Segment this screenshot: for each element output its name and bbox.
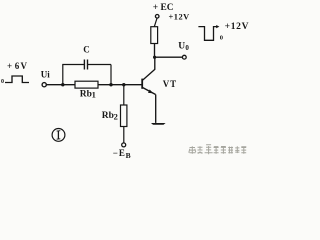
terminal U0 <box>182 55 186 59</box>
capacitor C plates <box>83 60 85 70</box>
wire right vertical of parallel block <box>110 65 112 85</box>
wire Rb2 to terminal <box>123 127 125 144</box>
svg-text:+: + <box>7 61 12 71</box>
svg-text:0: 0 <box>185 44 189 52</box>
svg-text:0: 0 <box>220 35 223 42</box>
wire EC to Rc <box>154 18 157 27</box>
svg-text:VT: VT <box>163 79 177 89</box>
figure number circle 1 <box>52 129 65 142</box>
svg-text:C: C <box>83 45 90 55</box>
terminal +EC <box>155 14 159 18</box>
input pulse waveform <box>5 76 29 83</box>
junction collector node <box>153 56 156 59</box>
junction right of parallel block <box>109 83 112 86</box>
svg-text:Rb: Rb <box>80 89 92 99</box>
wire emitter vertical <box>155 95 157 123</box>
svg-text:Ui: Ui <box>41 69 50 79</box>
transistor VT base bar <box>141 79 143 89</box>
transistor VT collector stroke <box>143 69 155 80</box>
svg-text:6V: 6V <box>15 61 28 71</box>
wire left vertical of parallel block <box>62 65 64 85</box>
wire to Rb2 <box>123 85 125 105</box>
terminal -EB <box>122 143 126 147</box>
svg-text:−E: −E <box>113 148 126 158</box>
svg-text:+12V: +12V <box>169 12 190 21</box>
resistor Rb2 <box>121 105 127 127</box>
svg-text:Rb: Rb <box>102 111 114 121</box>
svg-text:B: B <box>126 151 131 160</box>
svg-text:U: U <box>178 42 185 52</box>
svg-text:1: 1 <box>92 89 96 99</box>
junction base / Rb2 <box>122 83 125 86</box>
svg-text:2: 2 <box>114 112 118 122</box>
output pulse waveform <box>198 27 217 41</box>
svg-text:0: 0 <box>1 79 4 85</box>
wire capacitor branch left <box>62 64 84 66</box>
terminal Ui <box>42 83 46 87</box>
watermark <box>189 145 247 155</box>
wire capacitor branch right <box>88 64 112 66</box>
wire collector vertical <box>154 57 156 70</box>
junction left of parallel block <box>61 83 64 86</box>
svg-text:+12V: +12V <box>225 22 250 32</box>
wire output net <box>155 56 183 58</box>
transistor VT emitter stroke with arrow <box>143 88 156 95</box>
wire Rc to collector node <box>154 44 156 58</box>
resistor Rb1 <box>75 81 98 88</box>
ground <box>151 123 166 125</box>
resistor Rc <box>151 27 158 44</box>
wire input net <box>46 84 141 86</box>
